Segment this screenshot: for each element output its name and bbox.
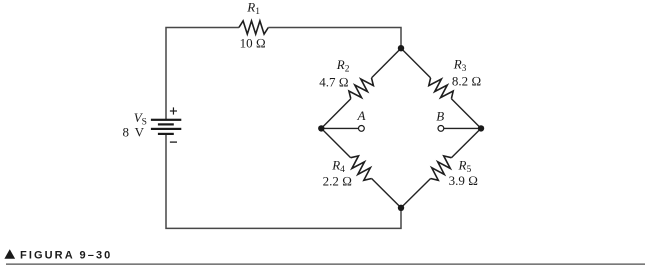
svg-text:R4: R4 bbox=[331, 158, 345, 176]
terminal B open circle bbox=[438, 125, 444, 131]
resistor R5 bbox=[431, 156, 452, 180]
svg-text:10 Ω: 10 Ω bbox=[240, 36, 266, 51]
wire from terminal B to right node bbox=[444, 127, 481, 129]
resistor R4 bbox=[351, 156, 372, 180]
svg-text:2.2 Ω: 2.2 Ω bbox=[323, 174, 353, 189]
wire top from left corner to R1 bbox=[166, 28, 239, 121]
svg-text:R1: R1 bbox=[246, 0, 260, 17]
svg-text:B: B bbox=[436, 108, 444, 123]
svg-text:3.9 Ω: 3.9 Ω bbox=[449, 173, 479, 188]
svg-text:FIGURA 9–30: FIGURA 9–30 bbox=[20, 250, 112, 262]
resistor R3 bbox=[429, 78, 453, 99]
wire left side bottom from battery to bottom-left corner then to bridge bottom bbox=[166, 135, 401, 228]
svg-text:A: A bbox=[357, 108, 366, 123]
wire diagonal from R4 to bottom node bbox=[372, 179, 401, 208]
node left junction dot bbox=[318, 125, 324, 131]
wire diagonal from R5 to right node bbox=[451, 128, 481, 157]
wire from left node to terminal A bbox=[321, 127, 358, 129]
svg-text:R3: R3 bbox=[453, 56, 467, 74]
svg-text:8 V: 8 V bbox=[123, 125, 146, 140]
node top junction dot bbox=[398, 45, 404, 51]
battery plus sign bbox=[170, 107, 177, 114]
svg-text:4.7 Ω: 4.7 Ω bbox=[319, 74, 349, 89]
svg-text:R2: R2 bbox=[336, 57, 350, 75]
svg-text:8.2 Ω: 8.2 Ω bbox=[452, 74, 482, 89]
wire diagonal from R2 to top node bbox=[372, 48, 402, 78]
battery minus sign bbox=[170, 141, 177, 143]
terminal A open circle bbox=[359, 125, 365, 131]
resistor R1 bbox=[239, 21, 268, 34]
wire diagonal upper-right (top node to R3) bbox=[401, 48, 431, 78]
battery VS bbox=[151, 119, 181, 135]
wire diagonal lower-left (left node to R4) bbox=[321, 128, 350, 157]
node right junction dot bbox=[478, 125, 484, 131]
node bottom junction dot bbox=[398, 205, 404, 211]
wire from R1 to top-right corner and down to bridge top bbox=[268, 28, 401, 49]
wire diagonal from R3 to right node bbox=[451, 99, 481, 129]
wire diagonal lower-right (bottom node to R5) bbox=[401, 179, 431, 208]
resistor R2 bbox=[349, 78, 374, 99]
wire diagonal upper-left (left node to R2) bbox=[321, 99, 351, 129]
caption rule bbox=[6, 263, 645, 265]
figure caption triangle bbox=[4, 249, 15, 259]
